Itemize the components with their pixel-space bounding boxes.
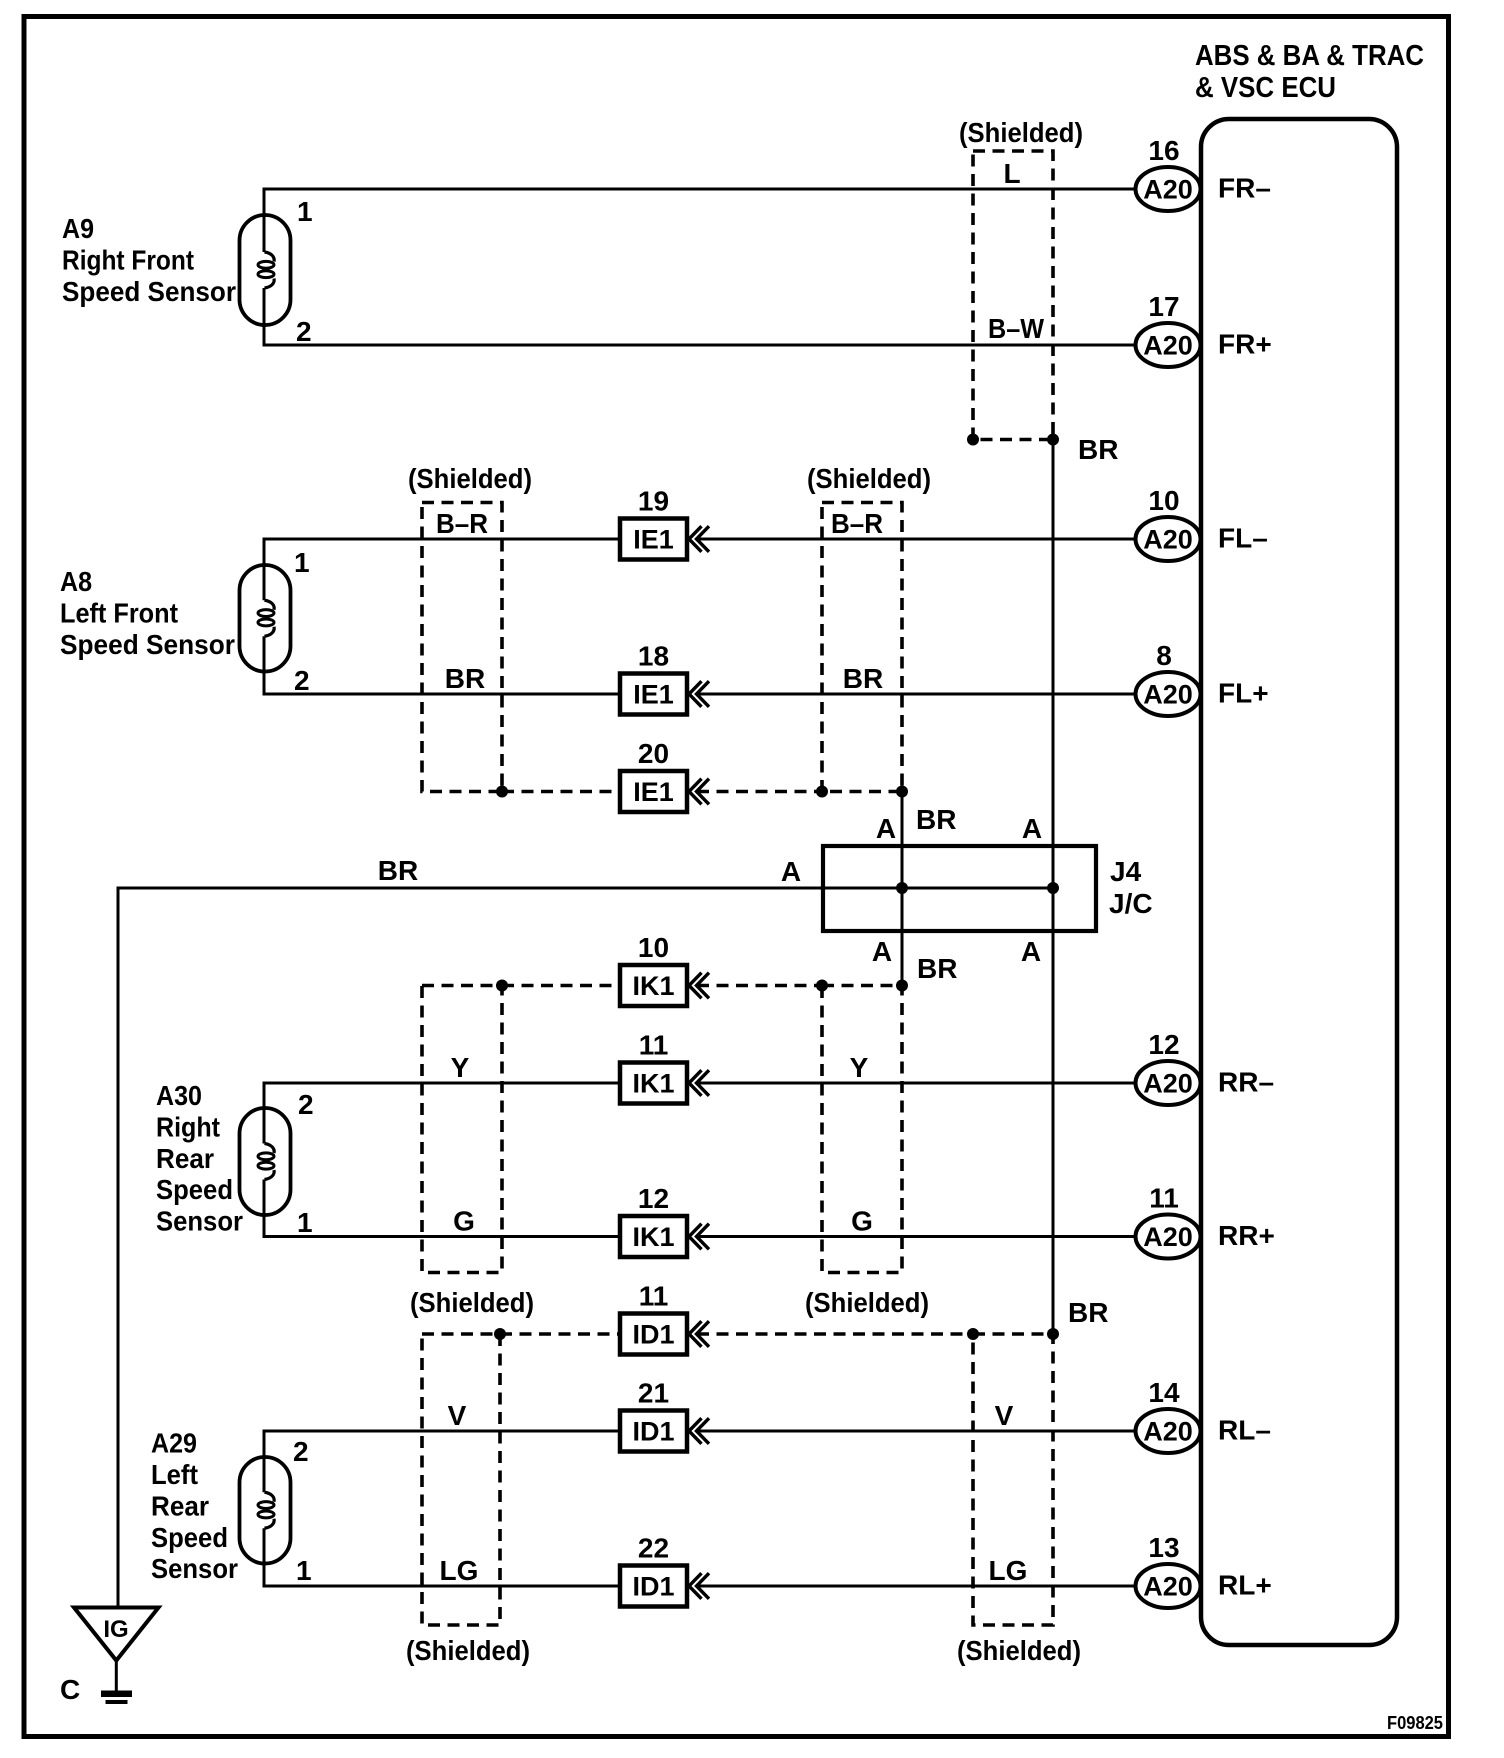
- junction dot RR right shield right corner, BR net end: [896, 980, 908, 992]
- wire RL- net: A29 pin2 to ID1-21, colour V: [263, 1430, 621, 1433]
- svg-text:L: L: [1003, 158, 1020, 189]
- svg-text:G: G: [453, 1206, 475, 1237]
- junction connector IK1 pin 10: [620, 965, 709, 1006]
- wire FL+ net: A8 pin2 to IE1-18, colour BR: [263, 693, 621, 696]
- junction dot FR shield left: [967, 434, 979, 446]
- junction connector J4 J/C: [823, 846, 1096, 931]
- svg-text:FR+: FR+: [1218, 329, 1272, 360]
- label A30 Right Rear Speed Sensor: [156, 1080, 243, 1237]
- junction dot RR left shield: [496, 980, 508, 992]
- ECU signal label RR+: [1218, 1220, 1275, 1251]
- A9 pin 2 label: [296, 316, 312, 347]
- label (Shielded) FL left: [408, 463, 532, 494]
- svg-text:B–W: B–W: [988, 313, 1045, 344]
- label A top-right of J4: [1022, 813, 1042, 844]
- svg-text:Rear: Rear: [151, 1490, 209, 1521]
- svg-text:ID1: ID1: [632, 1417, 674, 1447]
- svg-text:RR–: RR–: [1218, 1067, 1274, 1098]
- junction dot RR right shield left corner: [816, 980, 828, 992]
- svg-text:A20: A20: [1143, 331, 1193, 361]
- junction dot J4 right (BR2): [1047, 882, 1059, 894]
- label (Shielded) RL right: [957, 1635, 1081, 1666]
- wire RR- net: IK1-11 to ECU A20-12, colour Y: [697, 1082, 1139, 1085]
- svg-text:A20: A20: [1143, 1069, 1193, 1099]
- pin number 13: [1148, 1532, 1179, 1563]
- connector A20 pin 11 (RR+): [1136, 1215, 1201, 1259]
- wire colour label V (right): [995, 1400, 1014, 1431]
- pin number 10: [638, 932, 669, 963]
- svg-text:16: 16: [1148, 135, 1179, 166]
- junction connector IE1 pin 19: [620, 519, 709, 560]
- connector A20 pin 17 (FR+): [1136, 323, 1201, 367]
- wire colour label LG (right): [989, 1555, 1028, 1586]
- svg-text:& VSC ECU: & VSC ECU: [1195, 72, 1336, 104]
- svg-text:A20: A20: [1143, 1572, 1193, 1602]
- svg-text:J/C: J/C: [1109, 888, 1153, 919]
- figure number F09825: [1387, 1713, 1443, 1733]
- shield (dashed) around FL sensor wires, right part: [822, 503, 902, 792]
- connector A20 pin 14 (RL-): [1136, 1409, 1201, 1453]
- svg-text:ID1: ID1: [632, 1572, 674, 1602]
- svg-text:F09825: F09825: [1387, 1713, 1443, 1733]
- ECU signal label FR+: [1218, 329, 1272, 360]
- svg-text:Left: Left: [151, 1459, 198, 1490]
- svg-text:A: A: [876, 813, 896, 844]
- wire colour label B-R (left): [436, 508, 488, 539]
- wire colour label G (right): [851, 1206, 873, 1237]
- svg-text:(Shielded): (Shielded): [805, 1287, 929, 1318]
- svg-text:A8: A8: [60, 566, 92, 597]
- pin number 12: [638, 1183, 669, 1214]
- connector A20 pin 16 (FR-): [1136, 167, 1201, 211]
- svg-text:IK1: IK1: [632, 1069, 674, 1099]
- wire RL+ net: A29 pin1 to ID1-22, colour LG: [263, 1585, 621, 1588]
- svg-text:2: 2: [294, 665, 310, 696]
- svg-text:IE1: IE1: [633, 525, 674, 555]
- svg-text:A: A: [1021, 936, 1041, 967]
- A30 pin 2 label: [298, 1089, 314, 1120]
- wire FR+ net: A9 pin2 to ECU A20-17, colour B-W: [263, 344, 1139, 347]
- shield (dashed) around RR sensor wires, left part: [422, 986, 502, 1273]
- A8 pin 1 label: [294, 547, 310, 578]
- junction dot RL right shield left corner: [967, 1328, 979, 1340]
- label A bottom-left of J4: [872, 936, 892, 967]
- wire BR net from IG ground: up left side and across to J4: [118, 888, 1053, 1607]
- svg-text:(Shielded): (Shielded): [807, 463, 931, 494]
- svg-text:11: 11: [1149, 1183, 1179, 1214]
- pin number 21: [638, 1378, 669, 1409]
- wire colour label Y (right): [850, 1052, 869, 1083]
- pin number 11: [1149, 1183, 1179, 1214]
- junction connector ID1 pin 11: [620, 1314, 709, 1355]
- pin number 11: [639, 1281, 669, 1312]
- svg-text:Right Front: Right Front: [62, 245, 194, 276]
- A29 pin 1 label: [296, 1555, 312, 1586]
- svg-text:LG: LG: [440, 1555, 479, 1586]
- shield (dashed) around FR sensor wires: [973, 151, 1053, 440]
- junction connector IK1 pin 11: [620, 1063, 709, 1104]
- A9 pin 1 label: [297, 196, 313, 227]
- pin number 19: [638, 486, 669, 517]
- label BR near FR shield: [1078, 434, 1118, 465]
- shield (dashed) around RL sensor wires, right part: [973, 1334, 1053, 1625]
- svg-text:IK1: IK1: [632, 971, 674, 1001]
- svg-text:A: A: [872, 936, 892, 967]
- svg-text:2: 2: [296, 316, 312, 347]
- svg-text:B–R: B–R: [831, 508, 883, 539]
- svg-text:A20: A20: [1143, 680, 1193, 710]
- label A top-left of J4: [876, 813, 896, 844]
- connector A20 pin 8 (FL+): [1136, 672, 1201, 716]
- shield drain wire ID1-11 to RL right shield (dashed): [697, 1332, 973, 1336]
- speed sensor A9 (Right Front), coil symbol: [240, 189, 291, 345]
- svg-text:22: 22: [638, 1533, 669, 1564]
- label BR below J4: [917, 953, 957, 984]
- label (Shielded) RR left: [410, 1287, 534, 1318]
- A29 pin 2 label: [293, 1436, 309, 1467]
- svg-text:IK1: IK1: [632, 1222, 674, 1252]
- svg-text:(Shielded): (Shielded): [957, 1635, 1081, 1666]
- label A29 Left Rear Speed Sensor: [151, 1428, 238, 1585]
- shield drain wire IK1-10 to RR right shield (dashed): [697, 984, 822, 988]
- svg-text:20: 20: [638, 738, 669, 769]
- svg-text:14: 14: [1148, 1377, 1180, 1408]
- svg-text:Left Front: Left Front: [60, 598, 178, 629]
- svg-text:(Shielded): (Shielded): [410, 1287, 534, 1318]
- svg-text:FL–: FL–: [1218, 523, 1268, 554]
- ECU signal label RL-: [1218, 1415, 1271, 1446]
- wire FL+ net: IE1-18 to ECU A20-8, colour BR: [697, 693, 1139, 696]
- ECU signal label RL+: [1218, 1570, 1272, 1601]
- pin number 22: [638, 1533, 669, 1564]
- svg-text:12: 12: [1148, 1029, 1179, 1060]
- node C label: [60, 1674, 80, 1705]
- svg-text:ID1: ID1: [632, 1320, 674, 1350]
- A8 pin 2 label: [294, 665, 310, 696]
- label (Shielded) RL left: [406, 1635, 530, 1666]
- label A8 Left Front Speed Sensor: [60, 566, 235, 660]
- wire colour label BR (right): [843, 663, 883, 694]
- svg-text:A20: A20: [1143, 1417, 1193, 1447]
- svg-text:A20: A20: [1143, 525, 1193, 555]
- svg-text:BR: BR: [445, 663, 485, 694]
- connector A20 pin 12 (RR-): [1136, 1061, 1201, 1105]
- svg-text:V: V: [995, 1400, 1014, 1431]
- svg-text:Sensor: Sensor: [151, 1553, 238, 1584]
- speed sensor A8 (Left Front), coil symbol: [240, 539, 291, 694]
- wire RR- net: A30 pin2 to IK1-11, colour Y: [263, 1082, 621, 1085]
- svg-text:A20: A20: [1143, 1222, 1193, 1252]
- pin number 16: [1148, 135, 1179, 166]
- svg-text:Rear: Rear: [156, 1143, 214, 1174]
- pin number 12: [1148, 1029, 1179, 1060]
- wire IG to ground: [115, 1661, 118, 1693]
- pin number 14: [1148, 1377, 1180, 1408]
- power symbol IG (inverted triangle): [74, 1608, 159, 1661]
- wire RR+ net: IK1-12 to ECU A20-11, colour G: [697, 1235, 1139, 1238]
- svg-text:A: A: [781, 856, 801, 887]
- shield (dashed) around RL sensor wires, left part: [422, 1334, 500, 1625]
- junction dot J4 left (BR1): [896, 882, 908, 894]
- svg-text:RL–: RL–: [1218, 1415, 1271, 1446]
- junction connector IE1 pin 18: [620, 674, 709, 715]
- svg-text:BR: BR: [917, 953, 957, 984]
- svg-text:C: C: [60, 1674, 80, 1705]
- svg-text:B–R: B–R: [436, 508, 488, 539]
- label A bottom-right of J4: [1021, 936, 1041, 967]
- shield (dashed) around RR sensor wires, right part: [822, 986, 902, 1273]
- wire colour label B-W: [988, 313, 1045, 344]
- shield drain wire RL: left shield to ID1-11 (dashed): [500, 1332, 620, 1336]
- junction connector ID1 pin 21: [620, 1411, 709, 1452]
- pin number 20: [638, 738, 669, 769]
- svg-text:(Shielded): (Shielded): [408, 463, 532, 494]
- wire FL- net: IE1-19 to ECU A20-10, colour B-R: [697, 538, 1139, 541]
- svg-text:BR: BR: [1068, 1297, 1108, 1328]
- speed sensor A30 (Right Rear), coil symbol: [240, 1083, 291, 1237]
- junction connector ID1 pin 22: [620, 1566, 709, 1607]
- wire BR net vertical from FR shield down to RL shield (through J4): [1052, 440, 1055, 1335]
- wire FR- net: A9 pin1 to ECU A20-16, colour L: [263, 188, 1139, 191]
- svg-text:2: 2: [298, 1089, 314, 1120]
- wire RR+ net: A30 pin1 to IK1-12, colour G: [263, 1235, 621, 1238]
- svg-text:A20: A20: [1143, 175, 1193, 205]
- wire colour label BR (left): [445, 663, 485, 694]
- pin number 17: [1148, 291, 1179, 322]
- label (Shielded) FR: [959, 117, 1083, 148]
- wire colour label V (left): [448, 1400, 467, 1431]
- junction connector IK1 pin 12: [620, 1216, 709, 1257]
- svg-text:IE1: IE1: [633, 777, 674, 807]
- svg-text:19: 19: [638, 486, 669, 517]
- label: ABS & BA & TRAC & VSC ECU: [1195, 40, 1424, 104]
- shield drain wire to IE1-20 (dashed): [502, 790, 620, 794]
- svg-text:A29: A29: [151, 1428, 197, 1459]
- shield drain wire IE1-20 to FL right shield (dashed): [697, 790, 822, 794]
- ECU signal label FL-: [1218, 523, 1268, 554]
- ECU signal label FR-: [1218, 173, 1271, 204]
- svg-text:Y: Y: [850, 1052, 869, 1083]
- svg-text:Speed: Speed: [156, 1174, 233, 1205]
- svg-text:8: 8: [1156, 640, 1172, 671]
- svg-text:1: 1: [297, 1207, 313, 1238]
- svg-text:18: 18: [638, 641, 669, 672]
- svg-text:Speed Sensor: Speed Sensor: [60, 629, 235, 660]
- svg-text:RR+: RR+: [1218, 1220, 1275, 1251]
- wire colour label G (left): [453, 1206, 475, 1237]
- connector A20 pin 13 (RL+): [1136, 1564, 1201, 1608]
- label A9 Right Front Speed Sensor: [62, 213, 236, 307]
- wire colour label B-R (right): [831, 508, 883, 539]
- svg-text:1: 1: [294, 547, 310, 578]
- svg-text:Y: Y: [451, 1052, 470, 1083]
- label (Shielded) RR right: [805, 1287, 929, 1318]
- wire BR net vertical from FL shield down to RR shield (through J4): [901, 792, 904, 986]
- svg-text:1: 1: [297, 196, 313, 227]
- junction dot FL right shield right corner, BR net: [896, 786, 908, 798]
- pin number 11: [639, 1030, 669, 1061]
- svg-text:13: 13: [1148, 1532, 1179, 1563]
- svg-text:BR: BR: [843, 663, 883, 694]
- junction dot RL right shield right corner, BR net end: [1047, 1328, 1059, 1340]
- wire colour label L: [1003, 158, 1020, 189]
- svg-text:Sensor: Sensor: [156, 1206, 243, 1237]
- label BR above J4: [916, 804, 956, 835]
- wire RL- net: ID1-21 to ECU A20-14, colour V: [697, 1430, 1139, 1433]
- junction dot RL left shield: [494, 1328, 506, 1340]
- svg-text:2: 2: [293, 1436, 309, 1467]
- label (Shielded) FL right: [807, 463, 931, 494]
- svg-text:V: V: [448, 1400, 467, 1431]
- svg-text:A30: A30: [156, 1080, 202, 1111]
- svg-text:Speed: Speed: [151, 1522, 228, 1553]
- pin number 8: [1156, 640, 1172, 671]
- ECU block: ABS & BA & TRAC & VSC ECU: [1201, 119, 1397, 1645]
- shield drain wire RR: left shield to IK1-10 (dashed): [502, 984, 620, 988]
- ECU signal label FL+: [1218, 678, 1269, 709]
- svg-text:G: G: [851, 1206, 873, 1237]
- svg-text:Speed Sensor: Speed Sensor: [62, 276, 236, 307]
- connector A20 pin 10 (FL-): [1136, 517, 1201, 561]
- shield (dashed) around FL sensor wires, left part: [422, 503, 502, 792]
- svg-text:1: 1: [296, 1555, 312, 1586]
- svg-text:11: 11: [639, 1281, 669, 1312]
- ground symbol: [101, 1691, 132, 1705]
- svg-text:FL+: FL+: [1218, 678, 1269, 709]
- svg-text:IG: IG: [103, 1616, 128, 1643]
- speed sensor A29 (Left Rear), coil symbol: [240, 1431, 291, 1586]
- svg-text:IE1: IE1: [633, 680, 674, 710]
- svg-text:BR: BR: [1078, 434, 1118, 465]
- junction dot FL left shield: [496, 786, 508, 798]
- svg-text:Right: Right: [156, 1111, 220, 1142]
- svg-text:10: 10: [638, 932, 669, 963]
- svg-text:J4: J4: [1110, 856, 1142, 887]
- svg-text:(Shielded): (Shielded): [406, 1635, 530, 1666]
- svg-text:A9: A9: [62, 213, 94, 244]
- pin number 18: [638, 641, 669, 672]
- wire colour label Y (left): [451, 1052, 470, 1083]
- label A left of J4: [781, 856, 801, 887]
- junction connector IE1 pin 20: [620, 771, 709, 812]
- wire FL- net: A8 pin1 to IE1-19, colour B-R: [263, 538, 621, 541]
- svg-text:BR: BR: [378, 855, 418, 886]
- svg-text:FR–: FR–: [1218, 173, 1271, 204]
- svg-text:LG: LG: [989, 1555, 1028, 1586]
- svg-text:A: A: [1022, 813, 1042, 844]
- svg-text:BR: BR: [916, 804, 956, 835]
- junction dot FL right shield left corner: [816, 786, 828, 798]
- A30 pin 1 label: [297, 1207, 313, 1238]
- ECU signal label RR-: [1218, 1067, 1274, 1098]
- wire colour label LG (left): [440, 1555, 479, 1586]
- label BR on left horizontal wire: [378, 855, 418, 886]
- label BR near RL shield: [1068, 1297, 1108, 1328]
- svg-text:11: 11: [639, 1030, 669, 1061]
- label J4 J/C: [1109, 856, 1153, 919]
- svg-text:12: 12: [638, 1183, 669, 1214]
- svg-text:RL+: RL+: [1218, 1570, 1272, 1601]
- svg-text:10: 10: [1148, 485, 1179, 516]
- junction dot FR shield right, BR net start: [1047, 434, 1059, 446]
- wire RL+ net: ID1-22 to ECU A20-13, colour LG: [697, 1585, 1139, 1588]
- svg-text:(Shielded): (Shielded): [959, 117, 1083, 148]
- svg-text:ABS & BA & TRAC: ABS & BA & TRAC: [1195, 40, 1424, 72]
- svg-text:21: 21: [638, 1378, 669, 1409]
- svg-text:17: 17: [1148, 291, 1179, 322]
- pin number 10: [1148, 485, 1179, 516]
